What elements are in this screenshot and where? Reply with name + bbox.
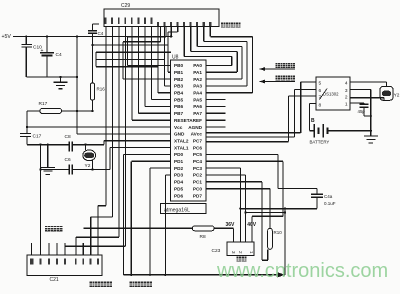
svg-text:PC6: PC6	[193, 145, 203, 150]
wire power ground bus	[26, 76, 77, 78]
label atmega16L strip	[161, 204, 206, 214]
capacitor C10	[22, 37, 32, 78]
wire C29 pin10 to U8 PB3	[165, 27, 171, 86]
wire U8 PC3 to C23 area	[206, 168, 241, 242]
svg-text:R8: R8	[200, 234, 206, 240]
svg-text:PD2: PD2	[174, 166, 184, 171]
wire C29 pin13 to U8 PA0	[184, 27, 232, 66]
svg-text:PA6: PA6	[193, 104, 202, 109]
node +5V	[2, 34, 12, 40]
label C17	[33, 134, 42, 140]
wire DS1302 pin3 to ground	[350, 90, 371, 136]
wire DS1302 pin2 to crystal bottom	[350, 98, 384, 101]
svg-text:XTAL1: XTAL1	[174, 145, 189, 150]
svg-text:5: 5	[319, 80, 322, 86]
svg-text:PA4: PA4	[193, 91, 202, 96]
svg-text:45p: 45p	[358, 109, 366, 114]
svg-text:PB0: PB0	[174, 63, 184, 68]
watermark www.cntronics.com	[216, 260, 388, 282]
capacitor C6	[69, 165, 72, 175]
svg-text:PA3: PA3	[193, 84, 202, 89]
label 45p	[358, 109, 366, 114]
svg-text:PA1: PA1	[193, 70, 202, 75]
wire C29 pin7 to U8 PB6	[145, 27, 171, 107]
svg-text:C4: C4	[56, 52, 62, 58]
label R16	[97, 87, 106, 92]
junction dot	[91, 44, 93, 46]
C23 pin numbers	[231, 251, 254, 254]
label C21	[50, 277, 59, 283]
capacitor 45p	[360, 104, 371, 116]
svg-text:PB1: PB1	[174, 70, 184, 75]
label U8	[172, 55, 179, 61]
svg-text:PA2: PA2	[193, 77, 202, 82]
battery BATTERY	[314, 124, 328, 138]
wire +5V loop right side	[76, 37, 78, 134]
wire RESET node	[27, 110, 93, 112]
svg-text:PB2: PB2	[174, 77, 184, 82]
junction dots on +5V rail	[25, 35, 172, 37]
wire XTAL2 net	[41, 148, 172, 170]
resistor R16	[90, 83, 94, 100]
wire aux return to C23 column	[244, 211, 286, 213]
wire U8 PC2 to C23 area	[206, 175, 246, 242]
C21 pin stubs	[32, 243, 99, 255]
connector C23 power header	[227, 242, 254, 256]
svg-text:PC4: PC4	[193, 159, 203, 164]
junction dot	[26, 126, 28, 128]
svg-text:R10: R10	[274, 230, 283, 235]
resistor R8	[192, 226, 214, 231]
svg-text:36V: 36V	[226, 222, 236, 228]
label C29	[121, 3, 130, 9]
U8 pin name labels	[174, 63, 203, 198]
svg-text:DS1302: DS1302	[323, 92, 339, 97]
junction dots on XTAL1 net	[39, 144, 86, 146]
capacitor C4 (electrolytic)	[40, 37, 54, 78]
wire U8 PC5 to capacitor C4a	[206, 154, 317, 188]
wire DS1302 pin4 to crystal top	[350, 82, 387, 87]
connector C29 (LCD header)	[104, 9, 219, 27]
label B	[311, 118, 315, 124]
svg-text:B: B	[311, 118, 315, 124]
wire C29 pin1 to keypad pin9	[98, 27, 106, 256]
svg-text:Y2: Y2	[394, 93, 400, 99]
capacitor C4b near C29	[88, 24, 99, 45]
junction dots	[370, 115, 372, 132]
chip DS1302 box	[316, 77, 350, 110]
wire XTAL1 net	[27, 141, 171, 145]
wire U8 PD0 down-left	[124, 154, 172, 274]
wire U8 PC6 to DS1302 pin7	[206, 96, 316, 142]
wire C29 pin17 to U8 PA4	[206, 27, 253, 93]
svg-text:AVcc: AVcc	[191, 132, 203, 137]
svg-text:PC5: PC5	[193, 152, 203, 157]
label C4	[56, 52, 62, 58]
label C23	[212, 248, 221, 254]
C21 pin number labels	[30, 258, 99, 264]
svg-text:4: 4	[345, 81, 348, 87]
op-amp U8 ATmega16 MCU box	[171, 60, 206, 201]
wire bottom bus	[124, 274, 286, 276]
wire R16 top	[92, 45, 94, 83]
wire U8 PD1 down-left	[131, 161, 171, 274]
wire DS1302 pin1 to cap 45p	[350, 103, 364, 104]
wire C29 pin5 to U8 RESET row	[132, 27, 171, 121]
label voltage detection	[276, 63, 296, 68]
wire aux bus 1	[96, 51, 171, 53]
ground (power filter)	[54, 77, 68, 89]
label C4b	[98, 31, 104, 36]
wire C29 pin16 to U8 PA3	[204, 27, 247, 86]
wire battery to ground	[328, 130, 371, 132]
wire C29 pin15 to U8 PA2	[197, 27, 242, 80]
svg-text:PB6: PB6	[174, 104, 184, 109]
junction dot	[59, 76, 78, 78]
svg-text:PD4: PD4	[174, 180, 184, 185]
wire aux bus 2	[96, 59, 165, 61]
svg-text:www.cntronics.com: www.cntronics.com	[216, 260, 388, 282]
wire U8 PC4 to 40V pin	[206, 161, 283, 242]
svg-text:PC2: PC2	[193, 173, 203, 178]
ground (crystal)	[41, 145, 55, 175]
wire U8 PD2 down-left	[150, 168, 171, 275]
svg-text:3: 3	[345, 88, 348, 94]
svg-text:R16: R16	[97, 87, 106, 92]
wire C29 pin12 to U8 PB1	[168, 27, 178, 73]
wire keypad column from XTAL ground bus	[40, 145, 42, 255]
svg-text:0.1uF: 0.1uF	[324, 201, 336, 206]
wire to U8 PB0 via top bus	[128, 27, 172, 66]
capacitor C17	[20, 134, 31, 145]
wire C29 pin8 to U8 PB5	[152, 27, 171, 100]
svg-text:C23: C23	[212, 248, 221, 254]
wire C29 pin2 to keypad pin8	[91, 27, 113, 256]
connector C21 keypad box	[27, 255, 102, 276]
svg-text:AREF: AREF	[189, 118, 202, 123]
label 40V	[247, 222, 257, 228]
wire second rail	[93, 44, 169, 46]
svg-text:1: 1	[345, 102, 348, 108]
wire current-detect stub with arrow	[260, 80, 296, 84]
label Y2	[85, 163, 91, 169]
label C8	[65, 134, 71, 140]
svg-text:PC0: PC0	[193, 186, 203, 191]
wire C29 pin9 to U8 PB4	[158, 27, 171, 93]
junction dots bottom bus	[130, 274, 166, 276]
wire U8 PA5/PA6/PA7/AREF/AGND stubs	[206, 100, 226, 127]
wire U8 PC0 to R10 top	[206, 189, 270, 229]
label BATTERY	[310, 139, 330, 144]
svg-text:PD3: PD3	[174, 173, 184, 178]
svg-text:C8: C8	[65, 134, 71, 140]
svg-text:8: 8	[319, 102, 322, 108]
svg-text:XTAL2: XTAL2	[174, 138, 189, 143]
svg-text:+5V: +5V	[2, 34, 12, 40]
svg-text:PA7: PA7	[193, 111, 202, 116]
label C6	[65, 157, 71, 163]
label keypad board	[45, 226, 62, 232]
svg-text:C4: C4	[98, 31, 104, 36]
svg-text:6: 6	[319, 88, 322, 94]
label R8	[200, 234, 206, 240]
label C10	[33, 45, 42, 51]
wire C29 pin4 to keypad pin5	[65, 27, 126, 256]
label power source	[237, 256, 247, 261]
svg-text:2: 2	[345, 95, 348, 101]
resistor R17	[40, 108, 62, 113]
svg-text:PC7: PC7	[193, 138, 203, 143]
arrow into node	[278, 272, 286, 277]
svg-text:AGND: AGND	[188, 125, 202, 130]
label Y2 rtc	[394, 93, 400, 99]
junction dots	[76, 110, 94, 112]
DS1302 pin numbers	[319, 80, 348, 108]
svg-text:BATTERY: BATTERY	[310, 139, 330, 144]
wire C29 pin14 to U8 PA1	[191, 27, 237, 73]
wire to U8 RESET/Vcc row	[27, 126, 171, 128]
crystal Y2 (MCU clock)	[83, 145, 96, 170]
wire C29 pin3 to keypad pin6	[76, 27, 119, 256]
wire U8 PC1 hook to R10 bottom	[206, 182, 268, 260]
svg-text:PA0: PA0	[193, 63, 202, 68]
label current detection	[276, 76, 296, 81]
svg-text:PC3: PC3	[193, 166, 203, 171]
svg-text:40V: 40V	[247, 222, 257, 228]
svg-text:PD5: PD5	[174, 186, 184, 191]
svg-text:C21: C21	[50, 277, 59, 283]
svg-text:PD0: PD0	[174, 152, 184, 157]
ground (RTC)	[364, 136, 378, 143]
capacitor C8	[69, 142, 72, 152]
svg-text:GND: GND	[174, 132, 185, 137]
wire U8 PC7 to DS1302 pin6	[206, 90, 316, 138]
svg-text:C4a: C4a	[324, 194, 333, 199]
capacitor C4a	[311, 189, 323, 209]
wire aux bus left stubs	[95, 52, 97, 66]
label R17	[39, 101, 48, 107]
svg-text:R17: R17	[39, 101, 48, 107]
svg-text:PD7: PD7	[193, 193, 203, 198]
svg-text:PB7: PB7	[174, 111, 184, 116]
wire U8 PD3 down-left	[165, 175, 171, 275]
wire voltage-detect stub with arrow	[260, 67, 296, 71]
svg-text:Y2: Y2	[85, 163, 91, 169]
label 0.1uF	[324, 201, 336, 206]
label LCD display (liquid crystal)	[221, 22, 241, 27]
svg-text:PC1: PC1	[193, 180, 203, 185]
wire R16 bottom	[92, 100, 94, 111]
svg-text:PA5: PA5	[193, 97, 202, 102]
label timing clock 2	[130, 281, 152, 287]
svg-text:RESET: RESET	[174, 118, 190, 123]
wire DS1302 pin8 to battery	[310, 104, 316, 131]
resistor R10	[268, 228, 273, 249]
svg-text:C6: C6	[65, 157, 71, 163]
wire C4a return to bottom bus	[239, 208, 317, 275]
label R10	[274, 230, 283, 235]
wire RESET vertical	[26, 111, 28, 134]
wire +5V rail	[13, 36, 171, 38]
wire C29 pin11 to +5V rail	[170, 27, 172, 37]
wire keypad col to R8	[83, 227, 192, 229]
svg-text:PD1: PD1	[174, 159, 184, 164]
svg-text:PB5: PB5	[174, 97, 184, 102]
junction dots on XTAL2 net	[39, 168, 93, 170]
svg-text:PB3: PB3	[174, 84, 184, 89]
svg-text:atmega16L: atmega16L	[164, 207, 190, 213]
label 36V	[226, 222, 236, 228]
crystal Y2 (RTC 32kHz)	[380, 87, 393, 101]
wire to U8 PB2 via top bus	[123, 27, 171, 80]
wire U8 AVcc row to DS1302 pin5	[206, 82, 316, 133]
svg-text:Vcc: Vcc	[174, 125, 183, 130]
wire C29 pin6 to U8 PB7	[139, 27, 172, 114]
C29 pin number labels	[105, 18, 212, 26]
wire aux bus 3	[96, 66, 158, 68]
svg-text:PD6: PD6	[174, 193, 184, 198]
label DS1302	[320, 89, 340, 100]
svg-text:C29: C29	[121, 3, 130, 9]
label C4a	[324, 194, 333, 199]
svg-text:PB4: PB4	[174, 91, 184, 96]
svg-text:C17: C17	[33, 134, 42, 140]
label timing clock 1	[90, 281, 112, 287]
wire to U8 GND row	[77, 133, 171, 135]
wire R8 to 36V pin	[214, 228, 234, 242]
